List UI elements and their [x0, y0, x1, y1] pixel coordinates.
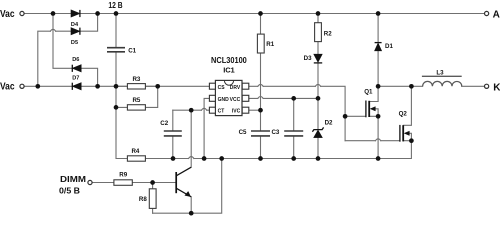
- svg-text:D6: D6: [72, 57, 79, 63]
- node top rail / R1: [258, 11, 263, 16]
- node GND rail / D2: [316, 156, 321, 161]
- node R9 / R8: [150, 180, 155, 185]
- wire C1 bus: [116, 14, 127, 159]
- hop DRV over R1: [258, 84, 263, 86]
- node top rail / D4 branch: [51, 11, 56, 16]
- svg-text:C2: C2: [160, 120, 168, 127]
- svg-text:Vac: Vac: [0, 9, 15, 20]
- svg-text:C3: C3: [271, 129, 279, 136]
- wire Q1 drain: [369, 86, 378, 101]
- node gate bus: [343, 114, 348, 119]
- node VCC / C3: [291, 96, 296, 101]
- wire GND pin to rail: [204, 98, 209, 158]
- diode D3: [304, 54, 323, 63]
- diode D7: [72, 76, 81, 90]
- wire C2 leads: [172, 110, 174, 158]
- wire Vac2/CS row: [25, 85, 209, 87]
- svg-text:L3: L3: [436, 70, 444, 77]
- node emitter / bottom rail: [189, 211, 194, 216]
- svg-text:D1: D1: [385, 43, 393, 50]
- resistor R2: [315, 23, 333, 42]
- wire R2 to D3: [317, 42, 319, 54]
- terminal Vac bottom: [0, 82, 24, 93]
- svg-text:NCL30100: NCL30100: [211, 55, 247, 65]
- capacitor C1: [107, 48, 137, 55]
- svg-text:A: A: [493, 10, 500, 21]
- node GND rail / IC GND: [202, 156, 207, 161]
- wire R4 right lead: [145, 158, 173, 160]
- node CS sense: [155, 84, 160, 89]
- svg-text:Q1: Q1: [364, 89, 373, 96]
- hop DRV over D3 vertical: [315, 84, 320, 86]
- wire emitter vertical: [190, 197, 192, 213]
- node top rail / D5 branch: [95, 11, 100, 16]
- wire switch node row: [378, 85, 411, 87]
- hop D5 row over x53: [50, 29, 55, 31]
- wire bottom rail: [153, 159, 222, 214]
- node GND rail / bottom link: [219, 156, 224, 161]
- wire D2 leads: [317, 98, 319, 158]
- svg-text:IVC: IVC: [232, 109, 241, 115]
- wire CT pin row: [173, 109, 210, 111]
- IC pin CS: [209, 83, 225, 91]
- diode D6: [72, 57, 81, 72]
- wire Q2 gate lead: [345, 140, 400, 142]
- svg-text:R9: R9: [119, 171, 127, 178]
- hop Q2 gate over Q1 source vertical: [375, 139, 380, 141]
- diode D4: [71, 10, 80, 28]
- svg-text:C5: C5: [239, 129, 247, 136]
- svg-text:K: K: [493, 82, 500, 93]
- wire D5 branch: [38, 14, 98, 87]
- resistor R9: [114, 171, 132, 185]
- capacitor C2: [160, 120, 182, 136]
- hop VCC over R1: [258, 97, 263, 99]
- wire ground rail: [173, 141, 411, 159]
- transistor Q2 (MOSFET): [399, 110, 410, 141]
- resistor R4: [127, 148, 145, 161]
- node top rail / R2: [316, 11, 321, 16]
- node switch / D1 Q1: [376, 84, 381, 89]
- zener diode D2: [312, 120, 333, 138]
- wire Q1 body-source: [369, 109, 378, 159]
- svg-text:12 В: 12 В: [108, 1, 122, 10]
- node Q2 source-body: [409, 138, 414, 143]
- terminal K: [485, 82, 500, 93]
- node Vac2 / C1 bus: [114, 84, 119, 89]
- svg-text:Vac: Vac: [0, 82, 15, 93]
- node Vac2 / D6 branch: [95, 84, 100, 89]
- capacitor C3: [271, 129, 303, 136]
- IC pin GND: [209, 95, 229, 103]
- wire Q2 drain: [403, 86, 411, 125]
- svg-text:D3: D3: [304, 55, 312, 62]
- svg-text:C1: C1: [128, 48, 136, 55]
- svg-text:0/5 В: 0/5 В: [59, 186, 80, 196]
- wire D1 leads: [377, 14, 379, 87]
- IC pin VCC: [230, 95, 249, 103]
- svg-text:CS: CS: [218, 85, 226, 91]
- svg-text:D5: D5: [71, 40, 78, 46]
- node VCC / D3 D2: [316, 96, 321, 101]
- wire C3 leads: [293, 98, 295, 158]
- svg-text:GND: GND: [218, 97, 230, 103]
- svg-text:Q2: Q2: [399, 110, 408, 117]
- node bus / R5: [114, 105, 119, 110]
- wire R1 leads: [260, 14, 262, 111]
- resistor R8: [139, 189, 156, 209]
- resistor R3: [127, 76, 145, 89]
- node switch / Q2 L3: [409, 84, 414, 89]
- wire C5 leads: [260, 110, 262, 158]
- node IVC / R1 C5: [258, 108, 263, 113]
- svg-text:DIMM: DIMM: [60, 174, 86, 184]
- terminal Vac top: [0, 9, 24, 20]
- wire D4 vertical to D6: [53, 14, 98, 87]
- wire collector vertical: [190, 110, 192, 167]
- terminal DIMM: [59, 174, 92, 196]
- IC pin CT: [209, 107, 224, 115]
- IC pin DRV: [230, 83, 249, 91]
- svg-text:R1: R1: [266, 41, 274, 48]
- wire R8 leads: [152, 183, 154, 214]
- svg-text:IC1: IC1: [223, 66, 235, 75]
- svg-text:R8: R8: [139, 196, 147, 203]
- svg-text:D4: D4: [71, 22, 79, 28]
- wire R3 leads: [116, 85, 158, 87]
- node CT junction: [189, 108, 194, 113]
- node Q1 source-body: [376, 114, 381, 119]
- svg-text:CT: CT: [218, 109, 225, 115]
- node top rail / D1: [376, 11, 381, 16]
- svg-text:R5: R5: [132, 97, 140, 104]
- resistor R5: [127, 97, 145, 110]
- wire DIMM row: [92, 182, 176, 184]
- node Vac2 / D5 branch: [35, 84, 40, 89]
- resistor R1: [257, 34, 274, 53]
- wire IVC row: [249, 109, 261, 111]
- transistor Q1 (MOSFET): [364, 89, 375, 118]
- inductor L3: [422, 70, 462, 87]
- wire top rail 12V: [25, 13, 485, 15]
- wire gate bus vertical: [344, 116, 346, 140]
- svg-text:VCC: VCC: [230, 97, 241, 103]
- svg-text:DRV: DRV: [230, 85, 241, 91]
- transistor Q3 (NPN BJT): [176, 167, 191, 197]
- wire Q1 gate lead: [345, 115, 366, 117]
- wire VCC row: [249, 97, 318, 99]
- node top rail / C1: [114, 11, 119, 16]
- wire L3 leads: [411, 85, 484, 87]
- svg-text:D7: D7: [72, 76, 79, 82]
- wire Q2 body-source: [403, 133, 411, 140]
- capacitor C5: [239, 129, 270, 136]
- IC pin IVC: [232, 107, 249, 115]
- wire DRV row: [249, 86, 345, 116]
- hop CT over GND vertical: [201, 108, 206, 110]
- node GND rail / Q1 source: [376, 156, 381, 161]
- node GND rail / C5: [258, 156, 263, 161]
- hop ground rail over collector: [189, 157, 194, 159]
- svg-text:R4: R4: [131, 148, 139, 155]
- svg-text:D2: D2: [325, 120, 333, 127]
- wire D3 to VCC node: [317, 64, 319, 99]
- svg-text:R2: R2: [324, 31, 332, 38]
- svg-text:R3: R3: [132, 76, 140, 83]
- diode D1: [375, 43, 394, 51]
- wire R2 lead top: [317, 14, 319, 23]
- diode D5: [71, 28, 80, 46]
- node GND rail / C3: [291, 156, 296, 161]
- IC U1 NCL30100 body: [211, 55, 247, 115]
- wire R5 leads: [116, 86, 158, 107]
- terminal A: [485, 10, 500, 21]
- node C2 ground: [171, 156, 176, 161]
